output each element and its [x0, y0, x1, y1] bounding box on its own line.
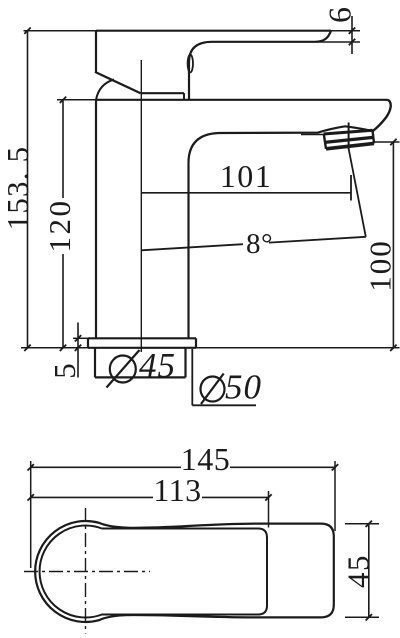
svg-text:100: 100 — [363, 239, 398, 292]
deck line — [21, 347, 400, 349]
extension line from lever bottom (for 6 dim) — [316, 41, 360, 43]
body shoulder arc — [96, 80, 114, 100]
faucet body centerline — [140, 60, 142, 352]
lever set-screw oval — [188, 55, 193, 73]
shank left edge — [94, 348, 96, 378]
shank right edge — [184, 348, 186, 378]
svg-text:101: 101 — [220, 158, 273, 194]
aerator band upper ring — [324, 130, 373, 134]
flange left edge — [87, 338, 89, 348]
extension line right of lever tip (for 6 dim) — [331, 30, 360, 32]
lever back edge and pivot arc — [189, 42, 212, 101]
top view inner outline — [40, 526, 267, 618]
tick 120 bottom — [60, 345, 66, 351]
handle skirt right edge — [183, 93, 185, 100]
aerator band bottom ring — [326, 143, 374, 148]
dimension 100 line — [392, 142, 394, 348]
tick 45 bottom — [366, 614, 372, 620]
lever bottom edge and tip curve — [212, 31, 331, 42]
extension stub 101 right — [350, 175, 352, 201]
svg-text:50: 50 — [225, 368, 262, 407]
extension line 145 right — [334, 461, 336, 531]
extension line left of knob top (for 153.5 dim) — [24, 30, 97, 32]
aerator axis tilted line — [349, 150, 366, 237]
tick 100 top — [390, 139, 396, 145]
diameter symbol of Ø50 — [201, 377, 225, 402]
dimension 101 line — [141, 192, 350, 194]
tick 45 top — [366, 521, 372, 527]
top view vertical centerline — [85, 508, 87, 634]
tick 6 top — [349, 28, 355, 34]
extension line left of flange top (for 5 dim) — [73, 337, 88, 339]
tick 145 right — [332, 464, 338, 470]
diameter symbol of Ø45 — [110, 356, 136, 383]
svg-text:120: 120 — [42, 199, 77, 253]
flange bottom thick segment — [88, 347, 196, 349]
top view outer outline — [35, 521, 334, 622]
extension line 45 bottom — [345, 616, 379, 618]
tick 153.5 bottom — [24, 345, 30, 351]
leader vertical of Ø50 — [191, 349, 193, 405]
tick 5 top — [75, 335, 81, 341]
extension line left of body top (for 120 dim) — [57, 99, 96, 101]
extension line left of aerator — [301, 134, 324, 136]
spout / body top edge — [96, 99, 388, 101]
tick 145 left — [28, 464, 34, 470]
tick 5 bottom — [75, 345, 81, 351]
top view horizontal centerline — [24, 571, 150, 573]
dimension 120 line — [62, 100, 64, 348]
aerator axis vertical tick — [348, 123, 350, 150]
tick 6 bottom — [349, 39, 355, 45]
body left edge — [95, 100, 97, 339]
aerator band left cap — [324, 134, 326, 149]
svg-text:45: 45 — [341, 554, 376, 588]
faucet handle knob top edge — [96, 30, 331, 32]
8 degree reference line left segment — [141, 244, 243, 250]
flange right edge — [195, 338, 197, 348]
tick 100 bottom — [390, 345, 396, 351]
svg-text:113: 113 — [153, 472, 201, 508]
spout tip curve — [373, 100, 391, 131]
handle knob left edge — [95, 30, 97, 72]
svg-text:8°: 8° — [246, 228, 273, 260]
shank bottom edge — [95, 376, 186, 378]
tick 120 top — [60, 97, 66, 103]
extension line 45 top — [345, 523, 379, 525]
svg-text:6: 6 — [321, 6, 357, 23]
handle skirt bottom flat — [141, 92, 185, 94]
extension line left of top view — [30, 461, 32, 568]
extension line under aerator (for 100 dim) — [373, 141, 400, 143]
tick 153.5 top — [24, 28, 30, 34]
svg-text:5: 5 — [47, 361, 82, 379]
aerator band middle ring — [325, 137, 373, 142]
handle knob slanted skirt — [95, 72, 141, 93]
dimension 45 line — [368, 524, 370, 618]
extension line 113 right — [268, 491, 270, 528]
dimension 6 line — [351, 16, 353, 54]
8 degree reference line right segment — [269, 237, 366, 243]
body right edge and spout underside bend — [189, 133, 220, 339]
dimension 145 line — [31, 466, 335, 468]
spout underside — [219, 126, 373, 133]
svg-text:45: 45 — [139, 346, 176, 385]
tick 113 right — [265, 494, 271, 500]
flange top edge — [88, 337, 196, 339]
svg-text:153. 5: 153. 5 — [0, 146, 35, 231]
leader underline of Ø50 — [192, 404, 256, 406]
aerator band right cap — [373, 130, 375, 143]
dimension 113 line — [31, 496, 269, 498]
dimension 153.5 line — [27, 31, 29, 348]
dimension 5 line — [77, 323, 79, 378]
tick 113 left — [28, 494, 34, 500]
